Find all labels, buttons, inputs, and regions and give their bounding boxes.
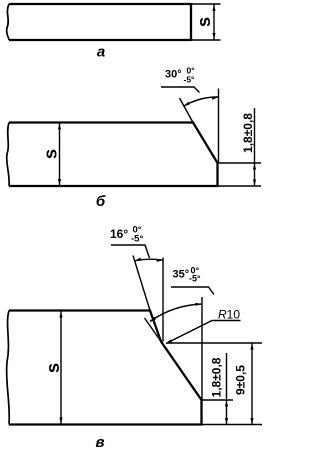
- svg-text:R10: R10: [218, 308, 240, 322]
- svg-text:9±0,5: 9±0,5: [234, 365, 248, 395]
- svg-text:в: в: [95, 434, 104, 451]
- svg-text:s: s: [42, 363, 63, 373]
- svg-text:16°: 16°: [110, 227, 128, 241]
- svg-text:s: s: [39, 149, 60, 159]
- svg-text:-5°: -5°: [131, 234, 143, 245]
- svg-text:35°: 35°: [173, 269, 190, 281]
- svg-text:б: б: [96, 193, 106, 210]
- svg-text:-5°: -5°: [184, 75, 196, 85]
- svg-text:а: а: [97, 44, 105, 61]
- svg-text:-5°: -5°: [189, 274, 201, 284]
- svg-text:1,8±0,8: 1,8±0,8: [241, 113, 255, 153]
- svg-text:s: s: [193, 17, 214, 27]
- svg-text:1,8±0,8: 1,8±0,8: [210, 357, 224, 397]
- svg-text:30°: 30°: [165, 69, 182, 81]
